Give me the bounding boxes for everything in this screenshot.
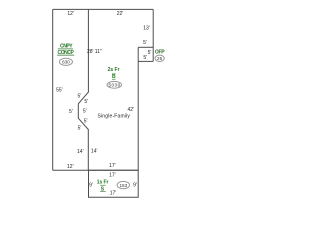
svg-text:12': 12' — [67, 164, 74, 170]
svg-text:22': 22' — [117, 11, 124, 17]
node CONCP overline — [58, 48, 73, 50]
wire lower building rectangle — [89, 170, 139, 197]
svg-text:5': 5' — [84, 99, 88, 105]
node oval 5030 — [107, 81, 122, 88]
svg-text:42': 42' — [128, 107, 135, 113]
svg-text:17': 17' — [110, 190, 117, 196]
svg-text:5': 5' — [84, 119, 88, 125]
node B underline — [112, 78, 116, 80]
svg-text:5': 5' — [148, 50, 152, 56]
wire bottom edge — [53, 169, 139, 171]
svg-text:5': 5' — [78, 93, 82, 99]
svg-text:153: 153 — [119, 183, 127, 188]
node oval 25 — [155, 55, 164, 61]
node CONCP underline — [57, 54, 74, 56]
building sketch diagram — [0, 0, 206, 206]
svg-text:25: 25 — [157, 56, 163, 61]
svg-text:14': 14' — [77, 149, 84, 155]
svg-text:5': 5' — [78, 125, 82, 131]
node B overline — [112, 73, 116, 75]
node oval 153 — [117, 181, 129, 188]
svg-text:14': 14' — [91, 149, 98, 155]
wire building right edge — [137, 47, 139, 170]
wire OFP top — [138, 46, 153, 48]
node S overline — [100, 184, 106, 186]
svg-text:17': 17' — [109, 173, 116, 179]
svg-text:17': 17' — [109, 163, 116, 169]
svg-text:12': 12' — [67, 11, 74, 17]
wire OFP bottom — [138, 60, 153, 62]
svg-text:2s Fr: 2s Fr — [108, 67, 120, 73]
svg-text:1s Fr: 1s Fr — [97, 179, 109, 185]
svg-text:5030: 5030 — [108, 83, 120, 88]
svg-text:9': 9' — [133, 182, 137, 188]
svg-text:28' 11": 28' 11" — [87, 49, 102, 55]
node oval 630 — [59, 58, 72, 65]
svg-text:13': 13' — [143, 26, 150, 32]
wire canopy/building boundary with jog — [78, 9, 88, 170]
wire left edge — [52, 9, 54, 170]
wire right edge — [152, 9, 154, 61]
svg-text:5': 5' — [83, 109, 87, 115]
svg-text:CNPY: CNPY — [60, 43, 73, 49]
svg-text:630: 630 — [62, 60, 70, 65]
wire top edge — [53, 8, 154, 10]
svg-text:5': 5' — [143, 40, 147, 46]
svg-text:5': 5' — [143, 55, 147, 61]
node S underline — [100, 191, 106, 193]
svg-text:55': 55' — [56, 88, 63, 94]
svg-text:9': 9' — [89, 182, 93, 188]
svg-text:5': 5' — [69, 109, 73, 115]
svg-text:Single-Family: Single-Family — [98, 113, 131, 119]
